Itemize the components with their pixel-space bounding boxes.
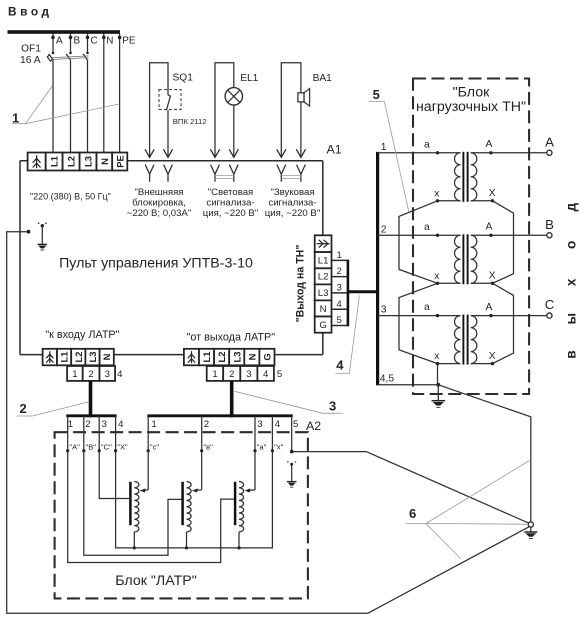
- svg-text:"Выход на ТН": "Выход на ТН": [295, 245, 307, 323]
- svg-text:А: А: [545, 134, 554, 149]
- wire x1 to x2 (primary chain): [399, 201, 438, 283]
- label от выхода ЛАТР: [187, 332, 276, 344]
- connector strip Выход на ТН: [315, 235, 332, 332]
- svg-text:PE: PE: [114, 155, 125, 168]
- lamp EL1: [225, 88, 242, 105]
- wire PE from busbar: [118, 34, 122, 153]
- svg-text:a: a: [424, 139, 430, 150]
- callout 4: [335, 295, 359, 373]
- svg-text:X: X: [489, 351, 496, 362]
- connector arrows into A1: [145, 149, 306, 157]
- svg-text:"Блок: "Блок: [453, 85, 491, 101]
- svg-text:N: N: [320, 304, 327, 315]
- svg-text:4: 4: [118, 419, 124, 430]
- callout 5: [369, 87, 410, 213]
- svg-text:EL1: EL1: [240, 73, 258, 84]
- A2 input terminal bus (left): [66, 414, 116, 417]
- strip label Выход на ТН (rotated): [295, 245, 307, 323]
- svg-text:A: A: [56, 35, 63, 46]
- variac TV1 (ЛАТР): [130, 482, 139, 550]
- svg-text:2: 2: [337, 266, 342, 277]
- svg-text:1: 1: [212, 369, 217, 380]
- svg-text:3: 3: [105, 369, 110, 380]
- svg-text:~220 В; 0,03А": ~220 В; 0,03А": [127, 208, 191, 219]
- block title Пульт управления УПТВ-3-10: [59, 255, 253, 271]
- block A1 outline: [20, 161, 323, 355]
- svg-text:16 A: 16 A: [20, 55, 41, 66]
- svg-text:a: a: [424, 222, 430, 233]
- svg-text:1: 1: [68, 419, 73, 430]
- wire loop EL1: [215, 63, 234, 158]
- svg-text:3: 3: [337, 282, 342, 293]
- chassis ground inside A2: [287, 461, 297, 487]
- connector sockets (forks) inside A1: [145, 165, 305, 182]
- svg-text:5: 5: [373, 87, 380, 102]
- wire X common rail terminal Х: [114, 416, 284, 548]
- connector X1 input terminal strip L1 L2 L3 N PE: [28, 153, 128, 171]
- svg-text:a: a: [424, 302, 430, 313]
- svg-text:2: 2: [229, 369, 234, 380]
- svg-text:C: C: [91, 35, 98, 46]
- svg-text:блокировка,: блокировка,: [132, 198, 186, 209]
- wire phase B from busbar: [69, 34, 73, 153]
- circuit breaker OF1 16 A label: [20, 43, 41, 66]
- A2 output terminal bus (right): [147, 414, 292, 417]
- chassis ground inside A1: [38, 222, 47, 250]
- breaker mechanical linkage: [49, 56, 89, 60]
- TN feed bus (wires 1-5): [376, 152, 379, 385]
- svg-text:3: 3: [257, 419, 262, 430]
- svg-text:PE: PE: [122, 35, 136, 46]
- A2 wire numbers right 1 2 3 4 5: [151, 419, 298, 430]
- thick wire from LATR output: [230, 381, 234, 417]
- thick wire to LATR input: [89, 381, 93, 417]
- svg-text:1: 1: [12, 110, 19, 125]
- svg-text:"С": "С": [101, 443, 112, 452]
- svg-text:x: x: [434, 188, 440, 199]
- limit switch SQ1: [166, 95, 170, 111]
- svg-text:В: В: [545, 217, 554, 232]
- transformer TV3: [424, 302, 547, 365]
- net label Световая сигнализация: [203, 187, 258, 219]
- svg-text:L1: L1: [201, 352, 212, 363]
- wire TN ground to main earth: [438, 385, 531, 522]
- svg-text:L3: L3: [318, 288, 329, 299]
- svg-text:A1: A1: [327, 143, 342, 157]
- svg-text:о: о: [564, 241, 579, 249]
- svg-text:G: G: [262, 353, 273, 360]
- main earth ground symbol: [524, 527, 537, 538]
- svg-text:1: 1: [151, 419, 156, 430]
- svg-text:"А": "А": [69, 443, 80, 452]
- wire number boxes 1 2 3 4: [67, 366, 123, 381]
- svg-text:L1: L1: [49, 156, 60, 167]
- svg-text:L2: L2: [216, 352, 227, 363]
- net label Звуковая сигнализация: [265, 187, 320, 219]
- svg-text:5: 5: [337, 315, 342, 326]
- wire X1 to X2 (secondary chain): [493, 201, 514, 283]
- svg-text:"Х": "Х": [117, 443, 128, 452]
- svg-text:N: N: [101, 353, 112, 360]
- label SQ1: [173, 72, 194, 83]
- net label Внешняя блокировка: [127, 187, 191, 219]
- callout 2: [17, 401, 89, 416]
- dashed enclosure Блок нагрузочных ТН: [413, 79, 529, 395]
- svg-text:3: 3: [246, 369, 251, 380]
- wire phase A from busbar: [51, 34, 55, 153]
- svg-text:сигнализа-: сигнализа-: [206, 198, 254, 209]
- svg-text:4: 4: [275, 419, 281, 430]
- svg-text:А: А: [486, 139, 493, 150]
- svg-text:ция, ~220 В": ция, ~220 В": [203, 208, 258, 219]
- A2 wire numbers left 1 2 3 4: [68, 419, 124, 430]
- wire number cells 1-5: [332, 250, 348, 326]
- wire b to TV2 wiper: [192, 416, 213, 493]
- svg-text:"Световая: "Световая: [208, 187, 253, 198]
- label к входу ЛАТР: [45, 329, 119, 341]
- speaker BA1: [298, 89, 310, 107]
- connector strip к входу ЛАТР: [43, 349, 114, 366]
- svg-text:OF1: OF1: [21, 43, 41, 54]
- wire loop SQ1: [150, 63, 168, 158]
- svg-text:4: 4: [337, 299, 343, 310]
- svg-text:"в": "в": [203, 443, 213, 452]
- block label Блок ЛАТР: [115, 573, 197, 589]
- svg-text:N: N: [246, 353, 257, 360]
- wire 3 to T3 primary: [378, 305, 461, 316]
- svg-text:X: X: [489, 271, 496, 282]
- breaker QF contacts on A B C: [49, 52, 89, 61]
- svg-text:L1: L1: [318, 256, 329, 267]
- svg-text:1: 1: [72, 369, 77, 380]
- svg-text:X: X: [489, 188, 496, 199]
- svg-text:N: N: [99, 158, 110, 165]
- wire PE to external ground loop: [7, 230, 530, 613]
- thick wire cell3 to TN bus: [348, 290, 378, 293]
- jumper link BA1 pair: [281, 176, 301, 179]
- svg-text:"с": "с": [150, 443, 159, 452]
- svg-text:2: 2: [88, 369, 93, 380]
- wire 1 to T1 primary: [378, 142, 461, 153]
- terminal labels L1 L2 L3 N G (rotated): [201, 352, 272, 363]
- label A1: [327, 143, 342, 157]
- svg-text:А: А: [486, 222, 493, 233]
- callout 6: [406, 461, 530, 560]
- svg-text:L2: L2: [66, 156, 77, 167]
- svg-text:2: 2: [381, 224, 387, 235]
- ground of TN block: [432, 385, 445, 408]
- label EL1: [240, 73, 258, 84]
- connector plug symbol (up arrows): [46, 351, 53, 363]
- callout 1: [12, 87, 120, 126]
- svg-text:5: 5: [277, 369, 282, 380]
- label A2: [306, 419, 321, 433]
- svg-text:5: 5: [293, 419, 298, 430]
- svg-text:L3: L3: [87, 352, 98, 363]
- svg-text:"х": "х": [274, 443, 283, 452]
- svg-text:L3: L3: [231, 352, 242, 363]
- wire x2 to x3 (primary chain): [399, 283, 438, 363]
- terminal labels L1 L2 L3 N PE (rotated): [49, 155, 126, 168]
- wire x3 to neutral 4,5: [436, 364, 440, 387]
- svg-text:х: х: [564, 278, 579, 286]
- svg-text:3: 3: [329, 399, 336, 414]
- transformer TV1: [424, 139, 547, 202]
- variac TV2 (ЛАТР): [183, 482, 192, 550]
- svg-text:"Внешняяя: "Внешняяя: [134, 187, 183, 198]
- svg-text:L2: L2: [73, 352, 84, 363]
- connector plug symbol (up arrows): [188, 351, 195, 363]
- transformer TV2: [424, 222, 547, 285]
- svg-text:ция, ~220 В": ция, ~220 В": [265, 208, 320, 219]
- input supply busbar: [8, 30, 121, 34]
- svg-text:L1: L1: [59, 352, 70, 363]
- svg-text:4,5: 4,5: [380, 374, 395, 385]
- jumper link EL1 pair: [215, 176, 234, 179]
- svg-text:G: G: [319, 320, 326, 331]
- dashed enclosure Блок ЛАТР: [55, 432, 308, 598]
- svg-text:"Звуковая: "Звуковая: [270, 187, 314, 198]
- svg-text:1: 1: [381, 142, 387, 153]
- wire A to TV1... terminal А: [66, 416, 234, 563]
- output terminal C: [545, 297, 555, 318]
- svg-text:B: B: [74, 35, 81, 46]
- input label Ввод: [8, 4, 53, 18]
- wire loop BA1: [281, 63, 301, 158]
- svg-text:BA1: BA1: [313, 73, 333, 84]
- svg-text:2: 2: [85, 419, 90, 430]
- main earth terminal: [528, 522, 533, 527]
- svg-text:2: 2: [20, 401, 27, 416]
- svg-text:"а": "а": [257, 443, 267, 452]
- svg-text:А: А: [486, 302, 493, 313]
- svg-text:Блок "ЛАТР": Блок "ЛАТР": [115, 573, 197, 589]
- svg-text:x: x: [434, 271, 440, 282]
- svg-text:С: С: [545, 297, 555, 312]
- svg-text:3: 3: [102, 419, 107, 430]
- svg-text:L3: L3: [83, 156, 94, 167]
- phase labels A B C N PE: [56, 35, 136, 46]
- connector plug symbol (up arrows): [33, 155, 41, 168]
- value label ВПК 2112: [173, 117, 207, 126]
- svg-text:3: 3: [381, 305, 387, 316]
- callout 3: [235, 391, 343, 413]
- svg-text:нагрузочных ТН": нагрузочных ТН": [416, 99, 526, 115]
- wire B terminal В: [82, 416, 181, 555]
- svg-text:д: д: [564, 203, 579, 212]
- svg-text:сигнализа-: сигнализа-: [268, 198, 316, 209]
- svg-text:"к входу ЛАТР": "к входу ЛАТР": [45, 329, 119, 341]
- output terminal B: [545, 217, 554, 238]
- svg-text:Ввод: Ввод: [8, 4, 53, 18]
- svg-text:Пульт управления УПТВ-3-10: Пульт управления УПТВ-3-10: [59, 255, 253, 271]
- svg-text:"В": "В": [86, 443, 97, 452]
- svg-text:4: 4: [117, 369, 123, 380]
- wire number boxes 1 2 3 4 5: [207, 366, 282, 381]
- svg-text:6: 6: [409, 506, 416, 521]
- svg-text:A2: A2: [306, 419, 321, 433]
- connector plug symbol (right arrows): [317, 240, 330, 248]
- net label 220 (380) В, 50 Гц: [30, 192, 111, 202]
- wire C terminal С: [98, 416, 130, 499]
- wire a to TV3 wiper: [245, 416, 267, 493]
- terminal labels L1 L2 L3 N (rotated): [59, 352, 113, 363]
- terminal labels L1 L2 L3 N G: [318, 256, 329, 331]
- svg-text:"от выхода ЛАТР": "от выхода ЛАТР": [187, 332, 276, 344]
- wire 2 to T2 primary: [378, 224, 461, 235]
- svg-text:2: 2: [204, 419, 209, 430]
- svg-text:ВПК 2112: ВПК 2112: [173, 117, 207, 126]
- connector strip от выхода ЛАТР: [184, 349, 275, 366]
- svg-text:1: 1: [337, 250, 342, 261]
- svg-text:4: 4: [263, 369, 269, 380]
- output terminal A: [545, 134, 554, 155]
- SQ1 dashed enclosure: [159, 90, 181, 110]
- svg-text:N: N: [106, 35, 113, 46]
- svg-text:в: в: [564, 350, 579, 358]
- svg-text:4: 4: [336, 357, 344, 372]
- breaker release box: [47, 55, 52, 61]
- svg-text:x: x: [434, 351, 440, 362]
- svg-text:ы: ы: [564, 313, 579, 325]
- wire c to TV1 wiper: [140, 416, 160, 493]
- wire neutral N from busbar: [102, 34, 106, 153]
- svg-text:L2: L2: [318, 272, 329, 283]
- svg-text:SQ1: SQ1: [173, 72, 194, 83]
- wire phase C from busbar: [86, 34, 90, 153]
- title Блок нагрузочных ТН: [416, 85, 526, 116]
- label BA1: [313, 73, 333, 84]
- wire 4,5 neutral/ground: [378, 374, 439, 385]
- wire X2 to X3 (secondary chain): [493, 283, 514, 363]
- variac TV3 (ЛАТР): [235, 482, 244, 550]
- label ВЫХОД (vertical): [564, 203, 579, 359]
- wire 5 terminal and chassis of A2: [290, 416, 529, 523]
- svg-text:"220 (380) В, 50 Гц": "220 (380) В, 50 Гц": [30, 192, 111, 202]
